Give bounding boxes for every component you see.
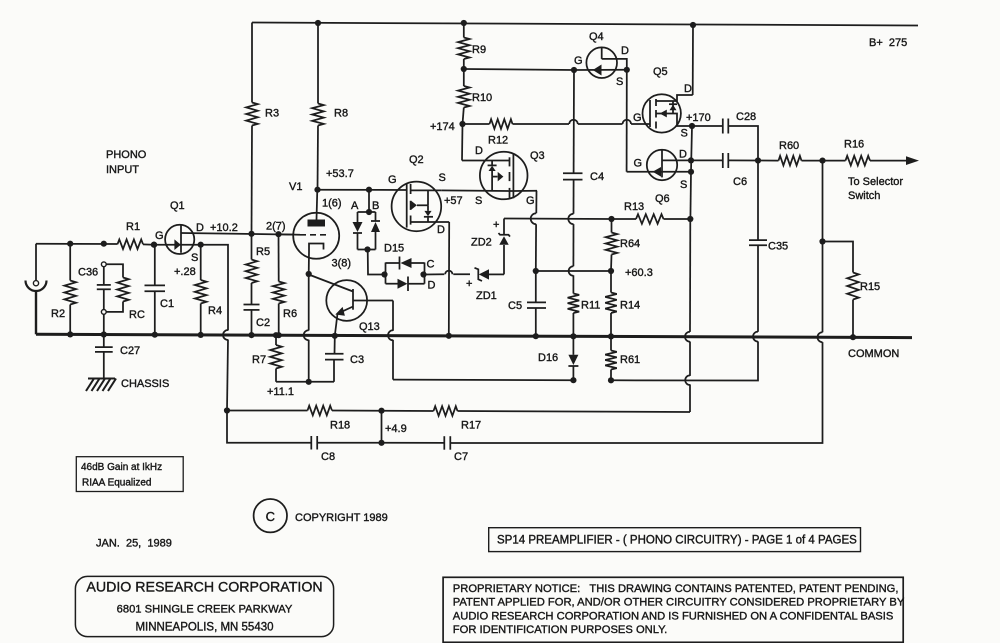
tube V1 plate	[308, 190, 342, 227]
resistor R13	[612, 201, 691, 224]
terminal C36 bottom circle	[101, 310, 106, 315]
junction R15 rail	[850, 334, 856, 340]
svg-text:R4: R4	[208, 305, 222, 317]
svg-text:R1: R1	[126, 221, 140, 233]
node COMMON label	[848, 348, 899, 360]
box 46dB gain	[76, 457, 183, 492]
svg-text:B+ 275: B+ 275	[869, 37, 907, 49]
resistor R17	[332, 406, 690, 431]
svg-text:RC: RC	[129, 309, 145, 321]
svg-text:V1: V1	[289, 181, 302, 193]
svg-text:ZD1: ZD1	[476, 290, 497, 302]
svg-text:C36: C36	[78, 267, 98, 279]
wire +53.7 to Q2 gate	[318, 189, 407, 191]
wire Q13 base down	[388, 301, 393, 380]
svg-text:COMMON: COMMON	[848, 348, 899, 360]
junction rail R11	[570, 333, 576, 339]
junction R9-R10	[461, 66, 467, 72]
resistor R5	[246, 234, 270, 305]
svg-text:Q4: Q4	[589, 31, 604, 43]
resistor R1	[118, 221, 155, 249]
junction C36 top	[101, 241, 107, 247]
diode D16	[538, 336, 578, 380]
wire R16 node down	[822, 161, 824, 242]
junction R8 top	[315, 20, 321, 26]
node +.28 label	[174, 266, 196, 278]
node C label	[427, 259, 435, 271]
svg-text:R9: R9	[472, 44, 486, 56]
wire ZD2 to R64 row	[504, 218, 612, 221]
resistor R8	[312, 23, 348, 190]
node +53.7 label	[326, 168, 354, 180]
diode A	[351, 200, 376, 250]
svg-text:R5: R5	[256, 246, 270, 258]
svg-text:+57: +57	[444, 195, 463, 207]
junction A-B top	[366, 187, 372, 193]
svg-text:Switch: Switch	[848, 190, 880, 202]
tube V1 envelope	[289, 181, 339, 259]
wire B+ rail	[252, 23, 918, 26]
terminal C36 top circle	[101, 262, 106, 267]
junction C8-C7	[378, 440, 384, 446]
svg-text:R12: R12	[488, 135, 508, 147]
box audio research corp	[75, 576, 333, 636]
svg-text:R61: R61	[620, 354, 640, 366]
capacitor C2	[244, 305, 271, 335]
capacitor C4	[563, 70, 604, 294]
svg-text:Q13: Q13	[359, 321, 380, 333]
resistor R14	[605, 271, 640, 336]
svg-text:C28: C28	[736, 111, 756, 123]
svg-text:S: S	[681, 128, 688, 140]
svg-text:R18: R18	[330, 420, 350, 432]
svg-text:46dB Gain at IkHz: 46dB Gain at IkHz	[81, 462, 162, 473]
transistor Q4	[574, 31, 629, 88]
svg-text:+.28: +.28	[174, 266, 196, 278]
node PHONO INPUT label	[106, 149, 147, 176]
wire Q5 drain to rail	[692, 25, 694, 95]
svg-text:G: G	[155, 230, 164, 242]
svg-text:R10: R10	[472, 92, 492, 104]
copyright symbol	[254, 499, 287, 532]
resistor R9	[458, 23, 486, 69]
wire +4.9 to C8C7	[381, 411, 383, 443]
svg-text:C27: C27	[120, 345, 140, 357]
wire +11.1 row	[276, 381, 334, 383]
svg-text:+174: +174	[430, 121, 455, 133]
junction C5 top	[533, 268, 539, 274]
svg-text:PROPRIETARY NOTICE: THIS DRA: PROPRIETARY NOTICE: THIS DRAWING CONTAIN…	[453, 583, 899, 595]
resistor R18	[227, 406, 350, 432]
svg-text:Q3: Q3	[530, 150, 545, 162]
wire D15 to ZD1	[425, 271, 471, 275]
junction rail C1	[152, 332, 158, 338]
svg-text:D: D	[428, 280, 436, 292]
transistor Q3	[462, 145, 545, 207]
svg-text:1(6): 1(6)	[322, 198, 342, 210]
wire Q6 source down	[689, 172, 692, 219]
box proprietary notice	[443, 577, 905, 642]
junction R13 right	[687, 216, 693, 222]
svg-text:S: S	[191, 252, 198, 264]
svg-text:+53.7: +53.7	[326, 168, 354, 180]
junction R61 bottom	[608, 377, 614, 383]
junction R6 top	[275, 231, 281, 237]
node +4.9 label	[385, 423, 407, 435]
resistor R10	[458, 69, 492, 124]
svg-text:ZD2: ZD2	[471, 237, 492, 249]
svg-text:R2: R2	[51, 308, 65, 320]
svg-text:D16: D16	[538, 352, 558, 364]
svg-text:C3: C3	[350, 354, 364, 366]
junction R5 top	[248, 231, 254, 237]
junction rail R6	[276, 332, 282, 338]
junction D15 left	[381, 271, 387, 277]
junction +4.9	[378, 408, 384, 414]
capacitor C8	[227, 411, 382, 464]
junction rail R7	[273, 332, 279, 338]
svg-text:D15: D15	[384, 243, 404, 255]
svg-text:C: C	[427, 259, 435, 271]
resistor R60	[758, 140, 823, 165]
wire Q1 drain to V1 grid	[181, 233, 293, 235]
node +10.2 label	[210, 222, 238, 234]
diode ZD1	[466, 268, 504, 302]
capacitor C28	[692, 111, 758, 161]
wire base row	[393, 379, 573, 382]
svg-text:C5: C5	[508, 300, 522, 312]
junction Q5 drain rail	[690, 22, 696, 28]
junction rail Q2 drain	[446, 333, 452, 339]
svg-text:D: D	[196, 222, 204, 234]
svg-text:Q2: Q2	[409, 154, 424, 166]
diode D15 upper	[384, 243, 425, 284]
svg-text:+60.3: +60.3	[625, 267, 653, 279]
node +60.3 label	[625, 267, 653, 279]
svg-text:A: A	[351, 200, 359, 212]
resistor R6	[273, 234, 297, 334]
capacitor C1	[145, 245, 175, 335]
junction D15 right	[420, 271, 426, 277]
svg-text:R16: R16	[844, 139, 864, 151]
junction Q1 source	[198, 242, 204, 248]
svg-text:R17: R17	[461, 420, 481, 432]
wire R12 to Q5 gate	[513, 120, 651, 124]
svg-text:JAN. 25, 1989: JAN. 25, 1989	[96, 538, 172, 550]
junction rail R5	[248, 332, 254, 338]
svg-text:PHONO: PHONO	[106, 149, 147, 161]
junction D16 bottom	[570, 377, 576, 383]
svg-text:C7: C7	[454, 451, 468, 463]
junction R64 top	[608, 216, 614, 222]
node +174 label	[430, 121, 455, 133]
svg-text:MINNEAPOLIS, MN 55430: MINNEAPOLIS, MN 55430	[135, 622, 273, 634]
wire +174 to Q3 drain	[461, 124, 464, 161]
transistor Q13	[309, 275, 393, 336]
transistor Q1	[154, 200, 204, 264]
phono input jack	[26, 281, 47, 292]
svg-text:C35: C35	[768, 241, 788, 253]
transistor Q5	[633, 66, 693, 140]
svg-text:R15: R15	[860, 281, 880, 293]
wire Q1 source to feedback	[201, 245, 228, 411]
svg-text:INPUT: INPUT	[106, 164, 139, 176]
svg-text:C4: C4	[590, 171, 604, 183]
svg-text:C2: C2	[256, 317, 270, 329]
resistor R3	[246, 23, 279, 234]
resistor R4	[195, 245, 222, 335]
svg-text:D: D	[475, 145, 483, 157]
wire Q5S to Q6D	[691, 126, 692, 172]
svg-text:S: S	[439, 172, 446, 184]
capacitor C6	[691, 153, 758, 188]
svg-text:C: C	[266, 509, 275, 524]
svg-text:C8: C8	[321, 451, 335, 463]
svg-text:AUDIO RESEARCH CORPORATION AND: AUDIO RESEARCH CORPORATION AND IS FURNIS…	[453, 611, 894, 623]
svg-text:3(8): 3(8)	[332, 258, 352, 270]
svg-text:R11: R11	[581, 300, 600, 312]
box SP14 title	[489, 528, 861, 552]
svg-text:To Selector: To Selector	[848, 176, 903, 188]
resistor R7	[252, 335, 282, 382]
junction C1 top	[151, 242, 157, 248]
svg-text:C1: C1	[160, 298, 174, 310]
junction Q5 source	[689, 123, 695, 129]
junction rail C5	[533, 333, 539, 339]
resistor R15	[823, 242, 881, 338]
arrow to selector switch	[848, 156, 919, 202]
wire R9R10 to Q4	[464, 69, 574, 70]
svg-text:D: D	[684, 83, 692, 95]
svg-text:R60: R60	[779, 140, 799, 152]
junction Q4 source	[624, 67, 630, 73]
tube V1 grid	[266, 221, 329, 235]
svg-text:D: D	[437, 224, 445, 236]
capacitor C35	[611, 161, 788, 381]
svg-text:+: +	[493, 219, 499, 231]
junction rail R4	[198, 332, 204, 338]
junction rail R14	[608, 333, 614, 339]
resistor R16	[823, 139, 908, 166]
svg-text:Q1: Q1	[170, 200, 185, 212]
node D label	[428, 280, 436, 292]
capacitor C5	[508, 271, 546, 336]
wire Q6S col down	[685, 219, 690, 412]
svg-text:D: D	[621, 45, 629, 57]
svg-text:R64: R64	[620, 238, 640, 250]
junction rail C36	[101, 331, 107, 337]
junction A-B bottom	[364, 246, 370, 252]
resistor R11	[568, 294, 601, 337]
junction Q1 gate	[151, 242, 157, 248]
resistor R61	[605, 336, 640, 380]
svg-text:CHASSIS: CHASSIS	[121, 378, 169, 390]
junction R2 top	[67, 241, 73, 247]
node B+ label	[869, 37, 907, 49]
svg-text:6801 SHINGLE CREEK PARKWAY: 6801 SHINGLE CREEK PARKWAY	[117, 604, 293, 616]
svg-text:G: G	[634, 158, 643, 170]
svg-text:G: G	[574, 55, 583, 67]
junction R60-R16	[819, 158, 825, 164]
resistor RC	[106, 264, 145, 321]
junction A-B bar	[366, 209, 372, 215]
junction rail R2	[67, 331, 73, 337]
junction V1 cathode node	[306, 271, 312, 277]
node JAN 25 1989	[96, 538, 172, 550]
junction +174	[459, 121, 465, 127]
svg-text:R14: R14	[620, 300, 640, 312]
svg-text:D: D	[679, 149, 687, 161]
wire COMMON rail	[36, 334, 912, 337]
svg-text:Q5: Q5	[653, 66, 668, 78]
junction Q6 source	[688, 169, 694, 175]
svg-text:B: B	[372, 200, 379, 212]
wire +60.3 row	[536, 270, 611, 272]
diode B	[371, 200, 380, 250]
wire Q3 gate down to +60.3	[531, 191, 537, 271]
svg-text:S: S	[475, 195, 482, 207]
svg-text:2(7): 2(7)	[266, 221, 286, 233]
diode D15 lower	[386, 263, 425, 292]
svg-text:+11.1: +11.1	[267, 386, 294, 398]
svg-text:C6: C6	[733, 176, 747, 188]
junction R9 top	[461, 20, 467, 26]
capacitor C36	[78, 267, 111, 310]
junction C4 branch top	[571, 67, 577, 73]
capacitor C3	[325, 336, 364, 382]
svg-text:+: +	[466, 278, 472, 290]
node COPYRIGHT 1989	[295, 512, 388, 524]
node +170 label	[686, 112, 711, 124]
svg-text:AUDIO RESEARCH CORPORATION: AUDIO RESEARCH CORPORATION	[86, 580, 322, 596]
wire cathode to +11.1	[304, 274, 309, 382]
svg-text:G: G	[388, 174, 397, 186]
resistor R12	[463, 119, 513, 146]
junction feedback left	[224, 407, 230, 413]
capacitor C7	[382, 436, 469, 463]
wire Q4 to Q6 gate	[626, 70, 628, 172]
tube V1 cathode	[309, 244, 351, 275]
wire jack shield down	[35, 291, 37, 334]
wire Q2 drain to common	[448, 222, 450, 337]
junction +53.7 node	[314, 187, 320, 193]
svg-text:+170: +170	[686, 112, 711, 124]
wire Q2 source to Q3 source	[441, 189, 509, 192]
svg-text:SP14 PREAMPLIFIER - ( PHONO CI: SP14 PREAMPLIFIER - ( PHONO CIRCUITRY) -…	[497, 535, 857, 547]
svg-text:PATENT APPLIED FOR, AND/OR OTH: PATENT APPLIED FOR, AND/OR OTHER CIRCUIT…	[453, 597, 905, 609]
capacitor C27	[95, 334, 140, 378]
svg-text:R3: R3	[265, 108, 279, 120]
svg-text:S: S	[680, 179, 687, 191]
svg-text:FOR IDENTIFICATION PURPOSES ON: FOR IDENTIFICATION PURPOSES ONLY.	[453, 624, 667, 636]
svg-text:R7: R7	[252, 354, 266, 366]
svg-text:Q6: Q6	[655, 193, 670, 205]
chassis ground	[86, 378, 169, 391]
svg-text:G: G	[633, 112, 642, 124]
resistor R64	[606, 219, 640, 271]
wire jack tip to input bus	[35, 244, 37, 281]
svg-text:RIAA Equalized: RIAA Equalized	[82, 478, 152, 489]
svg-text:+10.2: +10.2	[210, 222, 238, 234]
wire R16 node to C7 row	[452, 242, 823, 444]
wire A-B drop	[368, 190, 370, 212]
svg-text:R6: R6	[283, 308, 297, 320]
svg-text:R13: R13	[624, 201, 644, 213]
junction Q13 emitter rail	[332, 333, 338, 339]
svg-text:S: S	[616, 76, 623, 88]
wire A-B bottom bar	[358, 249, 376, 251]
diode ZD2	[471, 219, 510, 275]
wire to D15	[368, 250, 385, 275]
svg-text:G: G	[526, 195, 535, 207]
junction Q6 drain	[688, 157, 694, 163]
resistor R2	[51, 244, 76, 335]
node +11.1 label	[267, 386, 294, 398]
junction cathode +11.1	[306, 379, 312, 385]
svg-text:R8: R8	[334, 108, 348, 120]
junction +60.3	[608, 268, 614, 274]
wire C36 to rail	[103, 314, 105, 334]
transistor Q2	[388, 154, 463, 236]
svg-text:COPYRIGHT 1989: COPYRIGHT 1989	[295, 512, 388, 524]
wire input bus	[36, 243, 118, 245]
junction C6-C28 output	[755, 157, 761, 163]
transistor Q6	[627, 149, 691, 206]
junction R15 row	[819, 238, 825, 244]
svg-text:+4.9: +4.9	[385, 423, 407, 435]
